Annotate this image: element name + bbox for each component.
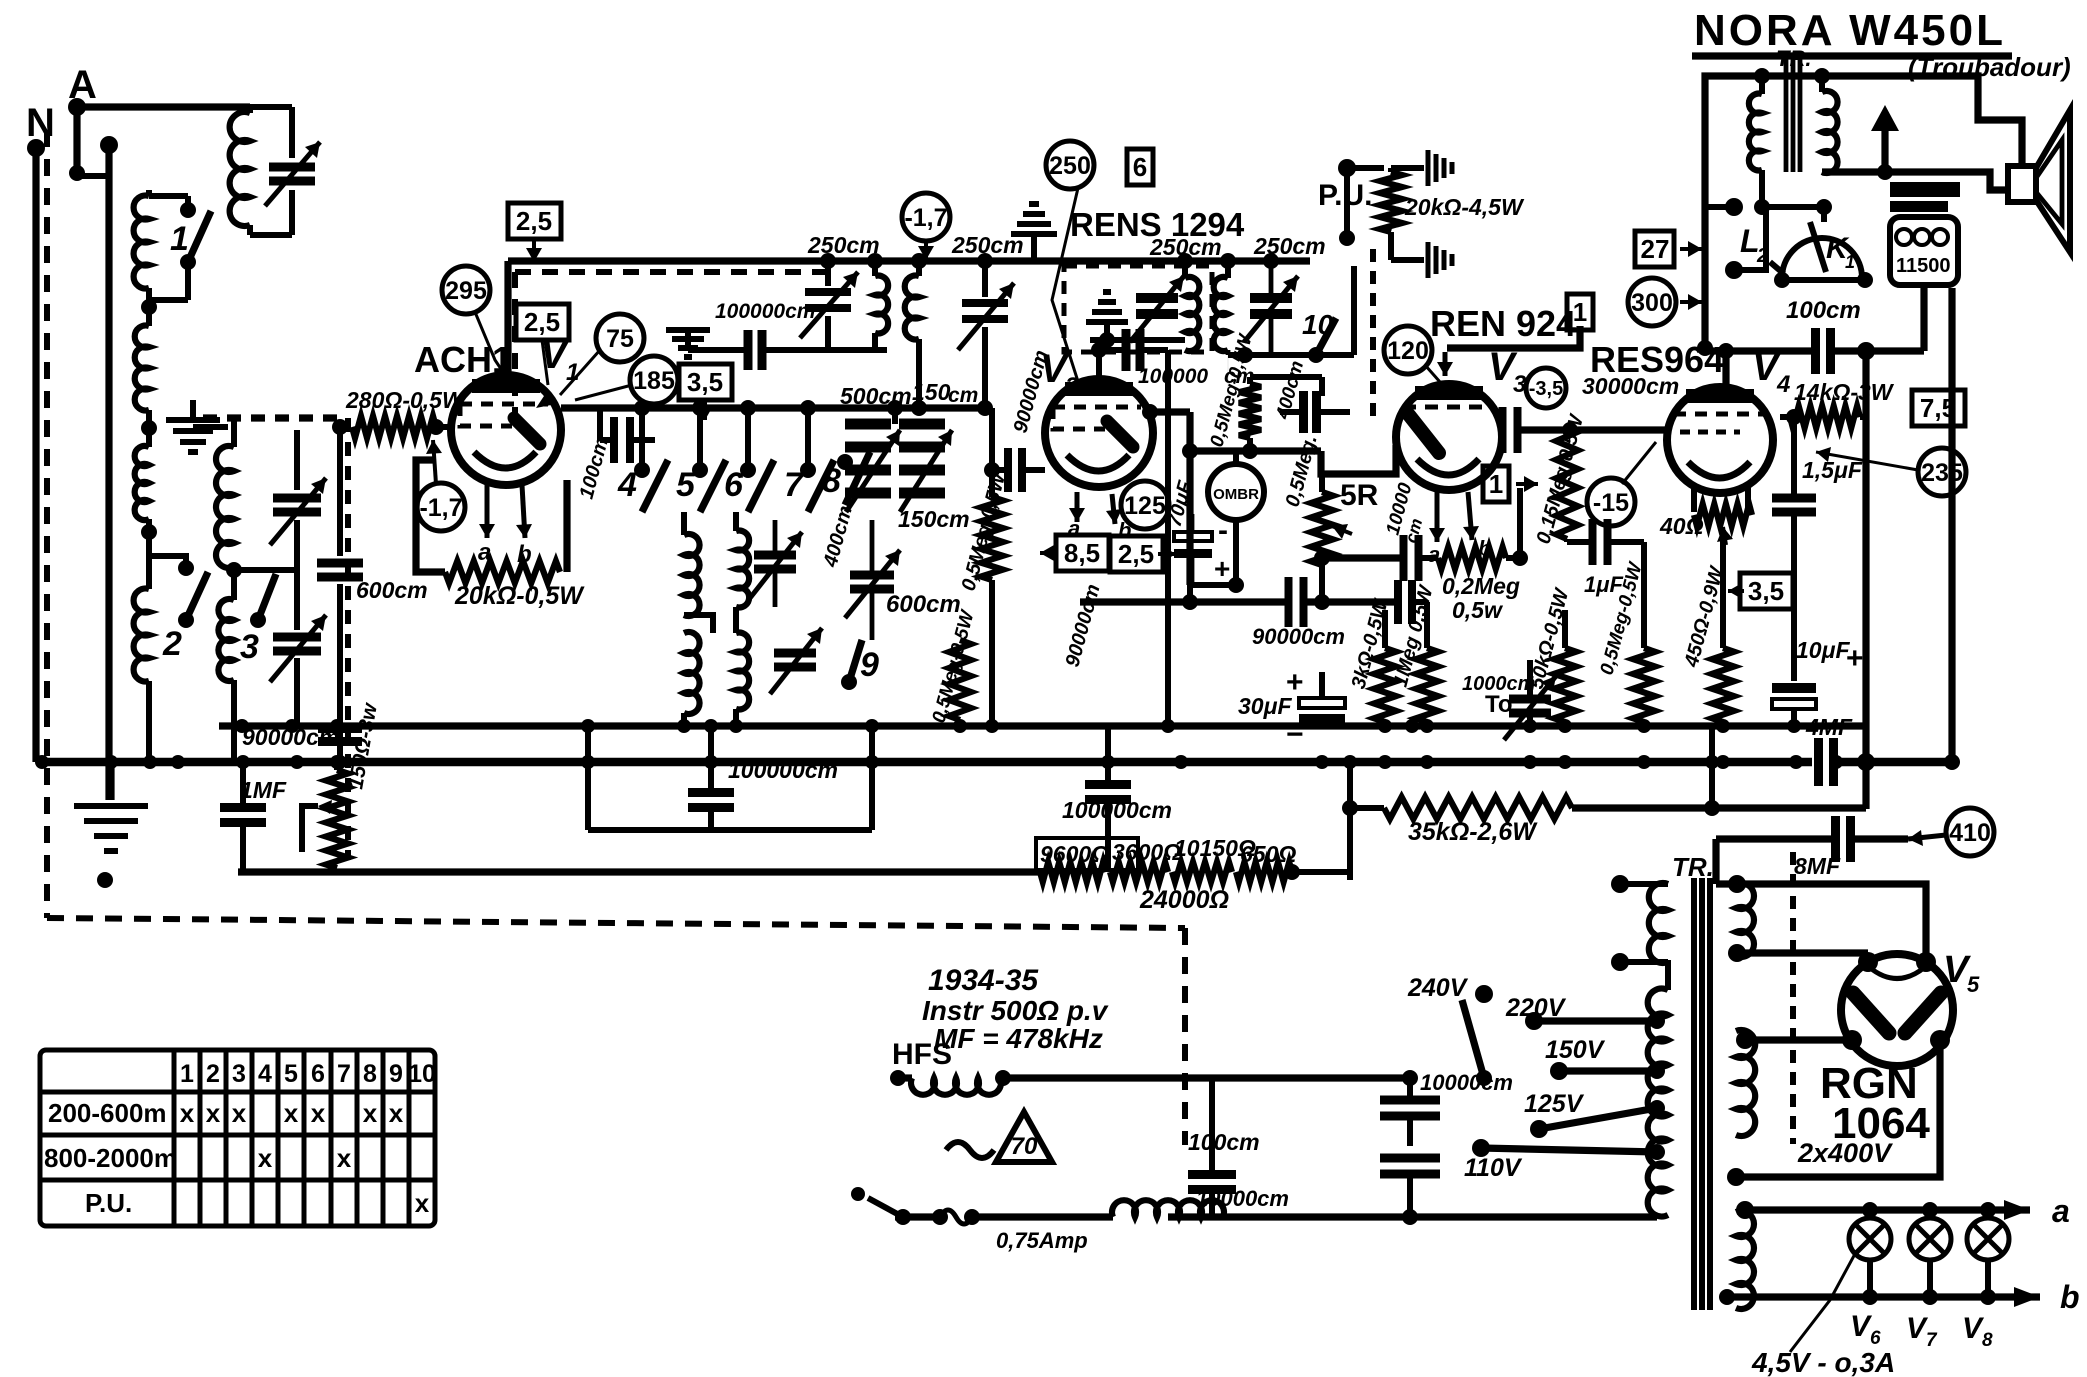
capacitor lower	[1380, 1158, 1440, 1174]
svg-text:600cm: 600cm	[886, 591, 961, 618]
bus junction	[677, 719, 691, 733]
ground bus junction	[330, 755, 344, 769]
svg-text:NORA W450L: NORA W450L	[1694, 6, 2006, 55]
svg-text:HFS: HFS	[892, 1038, 952, 1071]
svg-text:1: 1	[1845, 252, 1855, 272]
voltage 410	[1946, 808, 1994, 856]
bus junction	[1637, 719, 1651, 733]
padder under 6	[754, 555, 796, 569]
ground V2 grid box	[1086, 292, 1128, 322]
dashed grid return	[203, 414, 340, 421]
svg-text:OMBR: OMBR	[1213, 486, 1259, 503]
wire box1 to V3 anode	[1447, 326, 1580, 348]
V3 lead a	[1435, 492, 1440, 542]
capacitor 100cm grid	[614, 417, 630, 463]
resistor 20k-4,5W PU	[1380, 172, 1402, 232]
svg-text:9: 9	[860, 646, 879, 684]
voltage 120	[1384, 326, 1432, 374]
svg-text:x: x	[258, 1143, 273, 1173]
svg-text:5: 5	[284, 1060, 298, 1088]
svg-text:150: 150	[912, 379, 951, 405]
IF trimmer 2	[1250, 298, 1292, 314]
antenna coil L-ant	[247, 107, 253, 113]
svg-text:650Ω: 650Ω	[1240, 841, 1296, 867]
voltage 125	[1121, 481, 1169, 529]
wire V4 cathode down	[1720, 530, 1726, 648]
svg-text:27: 27	[1641, 234, 1670, 264]
svg-text:x: x	[363, 1098, 378, 1128]
potentiometer 150ohm-3W	[326, 770, 348, 868]
ground bus junction	[704, 755, 718, 769]
voltage 300	[1628, 278, 1676, 326]
ground bus junction	[1378, 755, 1392, 769]
switch 10	[1315, 354, 1317, 356]
choke HFS	[898, 1074, 912, 1081]
coil input 2	[146, 288, 152, 326]
leader 295	[475, 312, 505, 375]
capacitor 1uF V4	[1564, 539, 1570, 542]
speaker cone	[2036, 110, 2070, 252]
wire A to antenna coil	[77, 103, 250, 110]
wire link 570	[234, 567, 297, 573]
svg-text:6: 6	[1133, 152, 1147, 182]
voltage box 2,5 V2	[1110, 536, 1163, 572]
svg-text:x: x	[337, 1143, 352, 1173]
output transformer secondary	[1822, 91, 1838, 173]
svg-text:x: x	[311, 1098, 326, 1128]
wire lower link	[588, 827, 872, 833]
oscillator coil lower	[684, 632, 700, 714]
svg-text:4,5V - o,3A: 4,5V - o,3A	[1751, 1347, 1895, 1377]
transformer secondary heater	[1736, 1211, 1754, 1309]
svg-text:250cm: 250cm	[1253, 233, 1326, 259]
svg-text:10000cm: 10000cm	[1196, 1186, 1289, 1211]
svg-text:300: 300	[1631, 289, 1673, 317]
wire V2 top lead	[1096, 338, 1102, 379]
svg-text:+: +	[1214, 553, 1230, 584]
ground PU	[1428, 150, 1452, 186]
pickup arrow symbol	[1871, 105, 1899, 131]
svg-text:20kΩ-4,5W: 20kΩ-4,5W	[1404, 194, 1525, 220]
fuse 0,75Amp	[895, 1213, 940, 1220]
bus junction	[285, 719, 299, 733]
leader 2,5	[542, 340, 548, 385]
switch mains	[895, 1209, 911, 1225]
svg-text:1MF: 1MF	[240, 777, 287, 803]
resistor 50k-0,5W	[1554, 648, 1576, 722]
resistor 0,5Meg-0,5W out	[1633, 648, 1655, 722]
svg-text:0,5w: 0,5w	[1452, 597, 1504, 623]
ground bus junction	[1101, 755, 1115, 769]
voltage -1,7	[417, 483, 465, 531]
bus junction	[1716, 719, 1730, 733]
svg-text:x: x	[180, 1098, 195, 1128]
junction A lower	[69, 165, 85, 181]
wire switch1 top	[149, 193, 188, 199]
ground bus junction	[865, 755, 879, 769]
svg-text:TR.: TR.	[1672, 852, 1714, 882]
coil input 4 (long-wave)	[146, 519, 152, 589]
svg-text:x: x	[284, 1098, 299, 1128]
wire V5 filament left	[1745, 1036, 1852, 1043]
wire 100000cm riser	[1165, 350, 1171, 726]
wire V2 screen to OMBR node	[1142, 404, 1158, 420]
bus junction	[1405, 719, 1419, 733]
ground PU lower	[1428, 242, 1452, 278]
svg-text:240V: 240V	[1407, 974, 1469, 1002]
svg-text:+: +	[1846, 642, 1864, 675]
svg-text:a: a	[2052, 1193, 2070, 1229]
coil band 2 lower	[218, 599, 234, 681]
svg-text:x: x	[206, 1098, 221, 1128]
svg-text:N: N	[26, 101, 55, 145]
dial K1	[1782, 238, 1862, 278]
voltage -1,7 osc	[902, 193, 950, 241]
speaker driver	[2008, 166, 2036, 202]
bus junction	[704, 719, 718, 733]
lamp lead bottom	[1867, 1260, 1873, 1297]
wire V1 anode lead	[504, 261, 511, 375]
transformer primary main winding	[1648, 989, 1668, 1217]
cathode circuit box V1	[416, 460, 445, 572]
svg-text:4: 4	[1776, 371, 1790, 398]
svg-text:6: 6	[311, 1060, 325, 1088]
ground bus junction	[236, 755, 250, 769]
svg-text:10: 10	[408, 1060, 436, 1088]
coil input 1	[146, 190, 152, 196]
svg-text:7: 7	[1926, 1330, 1938, 1351]
wire coil4 down to bus	[146, 681, 152, 762]
leader 250	[1052, 188, 1082, 394]
svg-text:250cm: 250cm	[807, 232, 880, 258]
dashed HT line	[1790, 852, 1796, 1144]
capacitor 600cm input	[337, 430, 343, 556]
svg-text:8,5: 8,5	[1064, 538, 1100, 568]
svg-text:100cm: 100cm	[1786, 297, 1861, 324]
transformer core	[1691, 878, 1697, 1310]
ground bus junction	[1174, 755, 1188, 769]
wire right riser	[1948, 288, 1955, 762]
svg-text:235: 235	[1921, 459, 1963, 487]
PU terminal	[1338, 159, 1356, 177]
ground bus junction	[1705, 755, 1719, 769]
voltage box 3,5	[679, 364, 732, 400]
svg-text:40Ω: 40Ω	[1659, 513, 1704, 539]
switch 5	[697, 408, 703, 470]
switch 4	[639, 408, 645, 470]
wire V5 anode left	[1737, 949, 1868, 956]
lamp lead bottom	[1985, 1260, 1991, 1297]
switch 6	[745, 408, 751, 470]
dashed chassis border bottom	[47, 918, 1185, 928]
junction grid line	[332, 419, 348, 435]
resistor 280ohm	[352, 416, 436, 438]
dashed screen drop	[345, 418, 351, 860]
svg-text:75: 75	[606, 325, 634, 353]
arrow a	[2004, 1200, 2030, 1220]
wire V5 filament right	[1736, 1040, 1940, 1177]
dashed PU line	[1370, 249, 1376, 420]
svg-text:8: 8	[822, 462, 841, 500]
voltage 235	[1918, 448, 1966, 496]
output transformer core	[1784, 58, 1789, 172]
switch 8	[837, 454, 853, 470]
wire heater b	[1727, 1293, 2040, 1300]
svg-text:a: a	[478, 539, 491, 566]
leader 75	[560, 350, 600, 395]
svg-text:2: 2	[1064, 373, 1079, 400]
svg-text:2,5: 2,5	[1118, 539, 1154, 569]
dashed screen line	[515, 269, 826, 275]
bus junction	[985, 719, 999, 733]
svg-text:100000cm: 100000cm	[728, 757, 838, 783]
tuning capacitor C-tune1	[294, 430, 300, 490]
ground bus junction	[1420, 755, 1434, 769]
tube V5 RGN1064	[1841, 954, 1953, 1066]
svg-text:b: b	[2060, 1279, 2080, 1315]
lamp lead top	[1985, 1210, 1991, 1218]
svg-text:120: 120	[1387, 337, 1429, 365]
switch 1	[180, 202, 196, 218]
wire V4 anode lead	[1722, 351, 1729, 394]
box 27	[1635, 231, 1674, 267]
svg-text:280Ω-0,5W: 280Ω-0,5W	[345, 387, 466, 413]
switch 7	[805, 408, 811, 470]
svg-text:To: To	[1485, 691, 1513, 718]
svg-text:6: 6	[1870, 1328, 1881, 1349]
svg-text:1: 1	[180, 1060, 194, 1088]
voltage box 3,5 V4	[1740, 573, 1793, 609]
IF coil V2	[1185, 277, 1199, 351]
svg-text:REN 924: REN 924	[1430, 303, 1576, 344]
bus junction	[729, 719, 743, 733]
bus main ground	[42, 758, 1812, 766]
resistor 0,2Meg	[1438, 547, 1506, 569]
bus lower	[238, 868, 1040, 875]
node N terminal	[27, 139, 45, 157]
voltage 185	[630, 356, 678, 404]
tick K1	[1770, 262, 1784, 274]
wire riser 35k	[1347, 762, 1353, 880]
svg-text:0,75Amp: 0,75Amp	[996, 1228, 1088, 1253]
lamp lead bottom	[1927, 1260, 1933, 1297]
dashed chassis border right	[1182, 928, 1188, 1145]
svg-text:100000: 100000	[1138, 365, 1208, 388]
capacitor 4MF in bus	[1819, 738, 1834, 786]
box 6	[1127, 149, 1153, 185]
svg-text:1: 1	[170, 220, 189, 258]
wire B+ riser	[1862, 351, 1869, 726]
V3 lead b	[1468, 492, 1472, 540]
chassis ground top	[1031, 237, 1037, 261]
wire anode supply top	[508, 257, 1045, 264]
svg-text:cm: cm	[948, 384, 978, 407]
svg-text:410: 410	[1949, 819, 1991, 847]
transformer secondary HT	[1736, 1030, 1755, 1136]
wire switch1 bottom	[149, 297, 188, 303]
ground bus junction	[1789, 755, 1803, 769]
svg-text:90000cm: 90000cm	[1252, 624, 1345, 649]
voltage box 2,5 inner	[516, 304, 569, 340]
dashed screen left	[512, 272, 518, 420]
voltage 250	[1046, 141, 1094, 189]
speaker inner line	[2036, 140, 2062, 224]
oscillator trimmer 2	[982, 261, 988, 297]
resistor chain 3600	[1110, 862, 1168, 882]
svg-text:7: 7	[337, 1060, 351, 1088]
svg-text:6: 6	[724, 466, 744, 504]
svg-text:150cm: 150cm	[898, 506, 970, 532]
svg-text:x: x	[415, 1188, 430, 1218]
ground oscillator	[666, 330, 710, 357]
voltage -15	[1587, 478, 1635, 526]
svg-text:2,5: 2,5	[516, 206, 552, 236]
bus junction	[1523, 719, 1537, 733]
svg-text:1: 1	[1489, 469, 1503, 499]
bus junction	[1787, 719, 1801, 733]
svg-text:20kΩ-0,5W: 20kΩ-0,5W	[454, 582, 585, 610]
antenna trimmer capacitor	[289, 107, 295, 158]
title underline	[1692, 52, 2012, 59]
svg-text:2: 2	[162, 625, 182, 663]
voltage 295	[442, 266, 490, 314]
resistor 35k-2,6W	[1384, 797, 1572, 819]
bus junction	[235, 719, 249, 733]
svg-text:Instr 500Ω p.v: Instr 500Ω p.v	[922, 995, 1109, 1026]
wire 410 drop	[1712, 839, 1719, 884]
field coil label dark	[1890, 182, 1960, 197]
svg-text:5: 5	[1967, 972, 1980, 997]
switch 2	[178, 560, 194, 576]
svg-text:200-600m: 200-600m	[48, 1098, 167, 1128]
tube V3 REN924	[1396, 384, 1502, 490]
wire heater a	[1745, 1206, 2030, 1213]
svg-text:125: 125	[1124, 492, 1166, 520]
svg-text:70: 70	[1011, 1133, 1038, 1160]
wire to grid row	[1227, 355, 1229, 408]
resistor 40ohm	[1691, 487, 1697, 512]
coil under 6	[733, 512, 739, 531]
svg-text:3: 3	[232, 1060, 246, 1088]
leader 4,5V	[1790, 1252, 1856, 1352]
transformer secondary top	[1736, 883, 1754, 957]
ground bus junction	[35, 755, 49, 769]
lamp lead top	[1927, 1210, 1933, 1218]
coil band 2	[231, 420, 237, 447]
svg-text:125V: 125V	[1524, 1090, 1585, 1118]
lamp V7	[1909, 1218, 1951, 1260]
wire V1 grid row	[561, 404, 992, 411]
svg-text:-15: -15	[1593, 489, 1629, 517]
tone circle OMBR	[1208, 464, 1264, 520]
capacitor 90000cm grid link	[984, 462, 1000, 478]
svg-text:295: 295	[445, 277, 487, 305]
svg-text:10: 10	[1302, 309, 1334, 340]
V1 lead b	[522, 485, 525, 538]
box 7,5	[1912, 390, 1965, 426]
padder lower	[774, 653, 816, 667]
svg-text:+: +	[1286, 666, 1304, 699]
svg-text:100cm: 100cm	[1188, 1129, 1260, 1155]
svg-text:5R: 5R	[1340, 479, 1379, 512]
V1 lead a	[485, 485, 490, 538]
svg-text:2x400V: 2x400V	[1797, 1138, 1893, 1168]
svg-text:110V: 110V	[1464, 1154, 1523, 1182]
ground bus junction	[1637, 755, 1651, 769]
dashed chassis border left	[44, 130, 50, 918]
junction left column top	[100, 136, 118, 154]
oscillator coil 1	[872, 261, 878, 276]
svg-text:9: 9	[389, 1060, 403, 1088]
svg-text:2,5: 2,5	[524, 307, 560, 337]
svg-text:11500: 11500	[1896, 255, 1951, 277]
svg-text:8: 8	[1982, 1330, 1993, 1351]
wire antenna loop bottom	[250, 232, 292, 238]
transformer primary top winding	[1649, 883, 1668, 963]
svg-text:3,5: 3,5	[1748, 576, 1784, 606]
oscillator coil 2	[916, 261, 922, 276]
leader 185	[575, 385, 632, 400]
svg-text:9600Ω: 9600Ω	[1040, 841, 1109, 867]
dashed box V2 grid	[1064, 266, 1212, 352]
ground bus junction	[1716, 755, 1730, 769]
voltage -3,5	[1526, 368, 1566, 408]
wire N vertical	[32, 148, 39, 762]
ground bus junction	[1558, 755, 1572, 769]
main chassis ground	[107, 762, 114, 800]
svg-text:10000cm: 10000cm	[1420, 1070, 1513, 1095]
oscillator trimmer 1	[825, 261, 831, 286]
voltage box 8,5 V2	[1056, 535, 1109, 571]
svg-text:185: 185	[633, 367, 675, 395]
capacitor 8MF in 410 line	[1836, 816, 1851, 862]
padding condenser bank	[845, 424, 945, 493]
link L2	[1705, 204, 1734, 210]
wire ground stub	[193, 424, 228, 430]
bus junction	[581, 719, 595, 733]
box 1 top	[1567, 294, 1593, 330]
bus junction	[865, 719, 879, 733]
tuning capacitor C-tune2	[273, 637, 321, 651]
svg-text:8: 8	[363, 1060, 377, 1088]
resistor chain 9600	[1040, 862, 1106, 882]
switch 9	[841, 674, 857, 690]
wire HT riser lower	[1862, 726, 1869, 809]
V2 lead a	[1075, 492, 1080, 522]
node A terminal	[68, 98, 86, 116]
ground at grid line	[166, 420, 220, 452]
resistor 0,5Meg-0,5W V3 grid	[1239, 384, 1261, 438]
svg-text:0,2Meg: 0,2Meg	[1442, 573, 1520, 599]
resistor chain 650	[1236, 862, 1292, 882]
capacitor V2 IF trimmer 1	[1136, 298, 1178, 314]
svg-text:P.U.: P.U.	[85, 1188, 132, 1218]
bus junction	[1161, 719, 1175, 733]
switch 3	[250, 612, 266, 628]
svg-text:250: 250	[1049, 152, 1091, 180]
svg-text:x: x	[232, 1098, 247, 1128]
svg-text:1934-35: 1934-35	[928, 964, 1039, 997]
tube V4 RES964	[1667, 387, 1773, 493]
svg-text:1,5μF: 1,5μF	[1802, 457, 1863, 483]
voltage box 2,5 top	[508, 203, 561, 239]
svg-text:5: 5	[676, 466, 696, 504]
ground bus junction	[333, 755, 347, 769]
band switch table	[40, 1050, 435, 1226]
svg-text:24000Ω: 24000Ω	[1139, 886, 1229, 914]
svg-text:35kΩ-2,6W: 35kΩ-2,6W	[1408, 818, 1538, 846]
voltage 75	[596, 314, 644, 362]
